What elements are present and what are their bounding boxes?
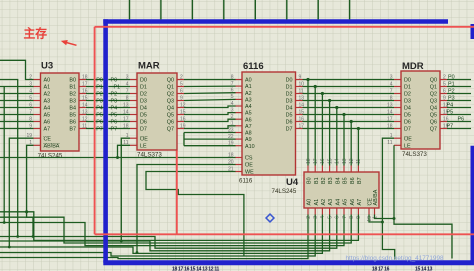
svg-text:18: 18 — [306, 158, 312, 164]
U4 pin 11 (B7) top stub — [356, 159, 363, 184]
svg-text:4: 4 — [320, 216, 326, 219]
svg-text:U3: U3 — [41, 61, 53, 72]
U4 pin 7 (A5) bottom stub — [342, 199, 349, 219]
wire data bus to MAR D6, net label P6 — [108, 119, 130, 125]
svg-text:B6: B6 — [69, 120, 76, 126]
svg-text:B1: B1 — [314, 177, 320, 184]
svg-text:2: 2 — [180, 74, 183, 80]
wire U3 B7 (pin 11) to data bus, net P7 — [86, 126, 104, 132]
6116 pin 19 (A10) left stub — [228, 141, 255, 150]
svg-text:8: 8 — [349, 216, 355, 219]
wire MAR Q1 to 6116 A1 — [184, 85, 236, 87]
svg-text:Q4: Q4 — [430, 106, 437, 112]
6116 pin 21 (WE) left stub — [228, 166, 254, 175]
6116 pin 15 (D5) right stub — [286, 109, 305, 118]
U3 pin 15 (B3) right stub — [69, 95, 87, 104]
U4 pin 2 (A0) bottom stub — [306, 199, 313, 219]
U4 pin 8 (A6) bottom stub — [349, 199, 356, 219]
MDR pin 19 (Q7) right stub — [430, 123, 449, 132]
bottom rail net A6: left edge, jog, to U4 drop — [0, 215, 351, 244]
wire MAR Q2 to 6116 A2 — [184, 92, 236, 95]
MAR pin 14 (D5) left stub — [123, 109, 147, 118]
wire 6116 D5 to MDR D5 — [303, 114, 395, 116]
MAR pin 1 (OE) left stub — [126, 133, 148, 142]
MAR pin 18 (D7) left stub — [123, 123, 147, 132]
svg-text:D6: D6 — [286, 120, 293, 126]
svg-text:A3: A3 — [328, 199, 334, 206]
wire 6116 D6 to MDR D6 — [303, 121, 395, 123]
svg-text:Q2: Q2 — [430, 92, 437, 98]
MDR pin 13 (D4) left stub — [387, 102, 411, 111]
wire U3 A5 (pin 7) to left edge — [0, 114, 34, 116]
svg-text:6116: 6116 — [243, 61, 264, 72]
svg-text:A1: A1 — [245, 84, 252, 90]
wire MDR Q0 to right edge, net P0 — [447, 75, 471, 81]
svg-text:D0: D0 — [286, 78, 293, 84]
svg-text:D6: D6 — [404, 120, 411, 126]
wire MAR OE (pin 1) down to rail — [120, 138, 130, 242]
svg-text:16: 16 — [320, 158, 326, 164]
red net: left vertical — [94, 27, 96, 235]
svg-text:D4: D4 — [404, 106, 411, 112]
red net: vertical under MAR right edge — [176, 151, 178, 235]
svg-text:74LS373: 74LS373 — [402, 151, 427, 158]
bottom rail net A3: left edge, jog, to U4 drop — [0, 215, 330, 251]
svg-text:A4: A4 — [245, 104, 252, 110]
MDR pin 15 (Q5) right stub — [430, 109, 449, 118]
svg-text:P6: P6 — [96, 119, 103, 125]
svg-text:P2: P2 — [448, 89, 455, 95]
MDR part value label — [402, 151, 427, 158]
svg-text:B2: B2 — [69, 92, 76, 98]
wire 6116 CS net across below MAR — [0, 157, 236, 159]
bus entry tick 4 on top bus — [254, 0, 256, 19]
MAR pin 4 (D1) left stub — [126, 81, 147, 90]
wire U3 A6 (pin 8) to left edge — [0, 121, 34, 123]
6116 pin 16 (D6) right stub — [286, 116, 305, 125]
wire MAR Q3 to 6116 A3 — [184, 99, 236, 100]
wire MAR Q5 to 6116 A5 — [184, 113, 236, 115]
MAR body — [137, 73, 177, 150]
svg-text:P7: P7 — [447, 124, 454, 130]
6116 pin 13 (D3) right stub — [286, 95, 305, 104]
svg-text:D2: D2 — [140, 92, 147, 98]
wire U3 A0 (pin 2) jog up to left edge — [0, 60, 34, 79]
6116 pin 9 (D0) right stub — [286, 74, 303, 83]
bus: bottom horizontal blue bus — [103, 260, 474, 265]
bus: left vertical blue bus — [103, 19, 108, 263]
svg-text:A9: A9 — [245, 137, 252, 143]
svg-text:A7: A7 — [357, 199, 363, 206]
wire drop net D6 down to U4 B6, junction — [350, 120, 353, 166]
U4 pin 13 (B5) top stub — [342, 158, 349, 184]
MDR pin 7 (D2) left stub — [390, 88, 411, 97]
U4 pin 15 (B3) top stub — [327, 158, 334, 184]
wire U3 B0 (pin 18) to data bus, net P0 — [86, 77, 104, 83]
svg-text:P3: P3 — [96, 98, 103, 104]
wire to 6116 A8 — [184, 132, 236, 134]
svg-text:A1: A1 — [44, 85, 51, 91]
svg-text:A2: A2 — [321, 199, 327, 206]
U3 pin 12 (B6) right stub — [69, 116, 87, 125]
wire U3 A7 (pin 9) to left edge — [0, 128, 34, 130]
U4 pin 19 (CE) bottom stub — [367, 198, 374, 222]
U3 pin 9 (A7) left stub — [29, 123, 50, 132]
svg-text:Q3: Q3 — [167, 99, 174, 105]
cropped wire from left edge dropping to rails (net A1) — [3, 87, 6, 224]
wire drop net D5 down to U4 B5, junction — [342, 113, 345, 166]
annotation arrow — [61, 40, 77, 45]
wire to 6116 A9 — [184, 138, 236, 140]
6116 pin 23 (A8) left stub — [228, 127, 252, 136]
svg-text:B4: B4 — [335, 177, 341, 184]
svg-text:WE: WE — [245, 170, 254, 176]
svg-text:9: 9 — [299, 74, 302, 80]
svg-text:P1: P1 — [114, 84, 121, 90]
wire 6116 D2 to MDR D2 — [303, 93, 395, 95]
wire U3 B4 (pin 14) to data bus, net P4 — [86, 105, 104, 111]
MAR pin 9 (Q3) right stub — [167, 95, 184, 104]
MDR pin 14 (D5) left stub — [387, 109, 411, 118]
MAR pin 19 (Q7) right stub — [167, 123, 186, 132]
svg-text:D5: D5 — [404, 113, 411, 119]
svg-text:74LS245: 74LS245 — [38, 153, 63, 160]
svg-text:Q0: Q0 — [430, 78, 437, 84]
MAR pin 5 (Q1) right stub — [167, 81, 184, 90]
wire to 6116 A10 — [184, 145, 236, 147]
svg-text:Q4: Q4 — [167, 106, 174, 112]
svg-text:A2: A2 — [245, 91, 252, 97]
svg-text:A0: A0 — [307, 199, 313, 206]
MDR pin 18 (D7) left stub — [387, 123, 411, 132]
svg-text:A3: A3 — [245, 98, 252, 104]
U3 pin 6 (A4) left stub — [29, 102, 50, 111]
svg-text:D7: D7 — [404, 127, 411, 133]
svg-text:P1: P1 — [96, 84, 103, 90]
svg-text:D7: D7 — [286, 127, 293, 133]
svg-text:5: 5 — [180, 81, 183, 87]
MAR pin 12 (Q4) right stub — [167, 102, 186, 111]
wire MDR Q3 to right edge, net P3 — [447, 96, 471, 102]
svg-text:P4: P4 — [447, 103, 454, 109]
wire 6116 D4 to MDR D4 — [303, 107, 395, 109]
wire MDR LE (pin 11) down right staircase to bus — [394, 145, 452, 258]
6116 part value label — [239, 178, 253, 185]
bottom rail net A1: left edge, jog, to U4 drop — [0, 215, 315, 257]
svg-text:D2: D2 — [404, 92, 411, 98]
svg-text:D3: D3 — [286, 99, 293, 105]
bus entry tick 6 on top bus — [317, 0, 319, 19]
U4 pin 1 (AB/BA) bottom stub — [372, 189, 379, 219]
watermark — [346, 255, 445, 262]
bottom rail net A5: left edge, jog, to U4 drop — [0, 215, 344, 246]
svg-text:11: 11 — [356, 159, 362, 164]
bus entry tick 5 on top bus — [286, 0, 288, 19]
svg-text:13: 13 — [342, 158, 348, 164]
svg-text:B4: B4 — [69, 106, 76, 112]
svg-text:D0: D0 — [404, 78, 411, 84]
U3 title label — [41, 61, 53, 72]
svg-text:P0: P0 — [111, 77, 118, 83]
svg-text:OE: OE — [404, 136, 412, 142]
wire drop net D0 down to U4 B0, junction — [306, 78, 309, 166]
svg-text:Q0: Q0 — [167, 78, 174, 84]
bus entry tick 3 on top bus — [223, 0, 225, 19]
wire U4 CE to MDR OE net, junction — [369, 215, 384, 224]
svg-text:P2: P2 — [111, 91, 118, 97]
wire drop net D1 down to U4 B1, junction — [314, 85, 317, 166]
MDR body — [401, 71, 440, 149]
bus: right edge vertical blue bus (upper stub) — [471, 24, 474, 39]
svg-text:P5: P5 — [447, 110, 454, 116]
vertical tie for A8..A10 wires — [183, 133, 185, 146]
svg-text:Q7: Q7 — [430, 127, 437, 133]
transceiver U4 74LS245 (rotated) body — [304, 172, 379, 208]
6116 pin 18 (CS) left stub — [228, 152, 253, 161]
6116 pin 10 (D1) right stub — [286, 81, 305, 90]
MDR pin 3 (D0) left stub — [390, 74, 411, 83]
wire MAR Q0 to 6116 A0 — [184, 79, 236, 81]
wire drop net D2 down to U4 B2, junction — [321, 92, 324, 166]
svg-text:A5: A5 — [343, 199, 349, 206]
6116 pin 2 (A6) left stub — [231, 114, 252, 123]
6116 title label — [243, 61, 264, 72]
svg-text:Q2: Q2 — [167, 92, 174, 98]
svg-text:A4: A4 — [335, 199, 341, 206]
6116 pin 5 (A3) left stub — [231, 94, 252, 103]
svg-text:https://blog.csdn.net/qq_41771: https://blog.csdn.net/qq_41771998 — [346, 255, 445, 262]
U3 part value label — [38, 153, 63, 160]
svg-text:D4: D4 — [140, 106, 147, 112]
svg-text:B3: B3 — [69, 99, 76, 105]
U3 pin 1 (AB/BA) left stub — [29, 140, 60, 149]
wire data bus to MAR D3, net label P3 — [108, 98, 130, 104]
wire U3 B2 (pin 16) to data bus, net P2 — [86, 91, 104, 97]
svg-text:A8: A8 — [245, 131, 252, 137]
svg-text:D2: D2 — [286, 92, 293, 98]
U3 pin 17 (B1) right stub — [69, 81, 87, 90]
wire data bus to MAR D4, net label P4 — [108, 105, 130, 111]
bottom clipped labels group 2 — [372, 267, 433, 271]
6116 pin 8 (A0) left stub — [231, 74, 252, 83]
svg-text:D1: D1 — [140, 85, 147, 91]
wire U3 B3 (pin 15) to data bus, net P3 — [86, 98, 104, 104]
MDR pin 6 (Q2) right stub — [430, 88, 447, 97]
wire MAR Q4 to 6116 A4 — [184, 106, 236, 108]
svg-text:MDR: MDR — [402, 61, 424, 72]
svg-text:B3: B3 — [328, 177, 334, 184]
bus entry tick 2 on top bus — [191, 0, 193, 19]
svg-text:B0: B0 — [69, 78, 76, 84]
svg-text:D3: D3 — [140, 99, 147, 105]
wire drop net D4 down to U4 B4, junction — [335, 106, 338, 166]
MAR pin 6 (Q2) right stub — [167, 88, 184, 97]
svg-text:D4: D4 — [286, 106, 293, 112]
wire data bus to MAR D2, net label P2 — [108, 91, 130, 97]
svg-text:9: 9 — [443, 95, 446, 101]
svg-text:B5: B5 — [69, 113, 76, 119]
6116 pin 14 (D4) right stub — [286, 102, 305, 111]
U4 pin 14 (B4) top stub — [335, 158, 342, 184]
wire U3 A2 (pin 4) to left edge — [0, 93, 34, 95]
svg-text:AB/BA: AB/BA — [44, 143, 60, 149]
svg-text:9: 9 — [356, 216, 362, 219]
svg-text:6: 6 — [180, 88, 183, 94]
bottom clipped labels group 1 — [172, 267, 220, 271]
U3 pin 4 (A2) left stub — [29, 88, 50, 97]
svg-text:Q6: Q6 — [430, 120, 437, 126]
MAR pin 13 (D4) left stub — [123, 102, 147, 111]
MDR pin 4 (D1) left stub — [390, 81, 411, 90]
wire MDR Q6 to right edge, net P6 — [447, 117, 471, 123]
6116 pin 22 (A9) left stub — [228, 134, 252, 143]
U3 pin 16 (B2) right stub — [69, 88, 87, 97]
svg-text:B0: B0 — [307, 177, 313, 184]
wire MAR LE (pin 11) to 6116 CS net — [116, 145, 130, 159]
MDR pin 16 (Q6) right stub — [430, 116, 449, 125]
MAR pin 16 (Q6) right stub — [167, 116, 186, 125]
svg-text:U4: U4 — [286, 177, 299, 188]
svg-text:2: 2 — [443, 74, 446, 80]
svg-text:A7: A7 — [44, 127, 51, 133]
svg-text:D7: D7 — [140, 127, 147, 133]
svg-text:P1: P1 — [448, 82, 455, 88]
svg-text:B1: B1 — [69, 85, 76, 91]
wire 6116 D7 to MDR D7 — [303, 128, 395, 130]
U3 pin 14 (B4) right stub — [69, 102, 87, 111]
svg-text:CS: CS — [245, 156, 253, 162]
svg-text:P0: P0 — [448, 75, 455, 81]
wire MDR Q5 to right edge, net P5 — [447, 110, 472, 116]
svg-text:D1: D1 — [286, 85, 293, 91]
U4 pin 16 (B2) top stub — [320, 158, 327, 184]
wire MAR Q7 to 6116 A7 — [184, 126, 236, 129]
MAR part value label — [137, 152, 162, 159]
MDR pin 2 (Q0) right stub — [430, 74, 447, 83]
svg-text:B5: B5 — [343, 177, 349, 184]
U4 pin 6 (A4) bottom stub — [335, 199, 342, 219]
svg-text:6: 6 — [335, 216, 341, 219]
svg-text:6: 6 — [443, 88, 446, 94]
wire 6116 D0 to MDR D0 — [303, 79, 395, 81]
svg-text:MAR: MAR — [138, 61, 160, 72]
MAR pin 3 (D0) left stub — [126, 74, 147, 83]
annotation text 主存 (main memory) — [24, 27, 48, 41]
MDR pin 17 (D6) left stub — [387, 116, 411, 125]
MDR pin 8 (D3) left stub — [390, 95, 411, 104]
MAR pin 15 (Q5) right stub — [167, 109, 186, 118]
svg-text:A6: A6 — [44, 120, 51, 126]
svg-text:P7: P7 — [96, 126, 103, 132]
svg-text:D6: D6 — [140, 120, 147, 126]
wire 6116 D1 to MDR D1 — [303, 86, 395, 88]
svg-text:P3: P3 — [111, 98, 118, 104]
svg-text:B7: B7 — [69, 127, 76, 133]
svg-text:主存: 主存 — [24, 27, 48, 41]
U3 pin 8 (A6) left stub — [29, 116, 50, 125]
bottom rail net A2: left edge, jog, to U4 drop — [0, 215, 322, 254]
wire 6116 OE net, drops below MAR to rail — [136, 165, 236, 254]
svg-text:P6: P6 — [111, 119, 118, 125]
U3 body — [41, 73, 80, 151]
wire U3 B5 (pin 13) to data bus, net P5 — [86, 112, 104, 118]
cropped wire from left edge dropping to rails (net A0) — [0, 80, 19, 238]
MAR pin 17 (D6) left stub — [123, 116, 147, 125]
svg-text:A10: A10 — [245, 144, 255, 150]
wire U3 B6 (pin 12) to data bus, net P6 — [86, 119, 104, 125]
svg-text:P5: P5 — [96, 112, 103, 118]
U3 pin 3 (A1) left stub — [29, 81, 50, 90]
6116 pin 3 (A5) left stub — [231, 107, 252, 116]
wire data bus to MAR D5, net label P5 — [108, 112, 130, 118]
svg-text:CE: CE — [44, 136, 52, 142]
svg-text:B6: B6 — [350, 177, 356, 184]
svg-text:A1: A1 — [314, 199, 320, 206]
6116 pin 4 (A4) left stub — [231, 101, 252, 110]
svg-text:5: 5 — [443, 81, 446, 87]
MAR pin 2 (Q0) right stub — [167, 74, 184, 83]
svg-text:Q1: Q1 — [167, 85, 174, 91]
svg-text:P5: P5 — [111, 112, 118, 118]
bus entry tick 7 on top bus — [349, 0, 351, 19]
svg-text:A2: A2 — [44, 92, 51, 98]
bus entry tick 1 on top bus — [160, 0, 162, 19]
svg-text:7: 7 — [342, 216, 348, 219]
svg-text:AB/BA: AB/BA — [373, 189, 379, 205]
svg-text:LE: LE — [140, 143, 147, 149]
svg-text:14: 14 — [335, 158, 341, 164]
MAR pin 7 (D2) left stub — [126, 88, 147, 97]
svg-text:A0: A0 — [245, 78, 252, 84]
svg-text:P7: P7 — [111, 126, 118, 132]
U4 pin 9 (A7) bottom stub — [356, 199, 363, 219]
svg-text:Q3: Q3 — [430, 99, 437, 105]
svg-text:Q5: Q5 — [430, 113, 437, 119]
wire MDR OE (pin 1) down right side to bus — [382, 138, 394, 259]
svg-text:D0: D0 — [140, 78, 147, 84]
svg-text:3: 3 — [313, 216, 319, 219]
svg-text:A6: A6 — [245, 117, 252, 123]
wire drop net D3 down to U4 B3, junction — [328, 99, 331, 166]
wire drop net D7 down to U4 B7, junction — [357, 127, 360, 166]
6116 body — [242, 72, 296, 175]
U4 part value label 74LS245 — [272, 188, 297, 195]
svg-text:Q1: Q1 — [430, 85, 437, 91]
svg-text:D5: D5 — [286, 113, 293, 119]
bus: right edge vertical blue bus (lower) — [471, 146, 474, 261]
wire MDR Q1 to right edge, net P1 — [447, 82, 471, 88]
bottom rail net A4: left edge, jog, to U4 drop — [0, 215, 337, 249]
svg-text:Q7: Q7 — [167, 127, 174, 133]
MAR title label — [138, 61, 160, 72]
svg-text:74LS245: 74LS245 — [272, 188, 297, 195]
wire 6116 WE net snake down to lower rail area — [146, 172, 244, 256]
svg-text:Q6: Q6 — [167, 120, 174, 126]
U4 pin 3 (A1) bottom stub — [313, 199, 320, 219]
svg-text:18 17 16 15 14 13 12 11: 18 17 16 15 14 13 12 11 — [172, 267, 220, 271]
6116 pin 17 (D7) right stub — [286, 123, 305, 132]
svg-text:B7: B7 — [357, 177, 363, 184]
wire MAR Q6 to 6116 A6 — [184, 119, 236, 121]
MAR pin 11 (LE) left stub — [123, 140, 147, 149]
svg-text:Q5: Q5 — [167, 113, 174, 119]
svg-text:18 17 16: 18 17 16 — [372, 267, 390, 271]
svg-text:D3: D3 — [404, 99, 411, 105]
U4 pin 5 (A3) bottom stub — [327, 199, 334, 219]
wire U3 AB/BA (pin 1) down, junction, step to rail — [25, 145, 34, 238]
wire MDR Q2 to right edge, net P2 — [447, 89, 471, 95]
svg-text:A3: A3 — [44, 99, 51, 105]
